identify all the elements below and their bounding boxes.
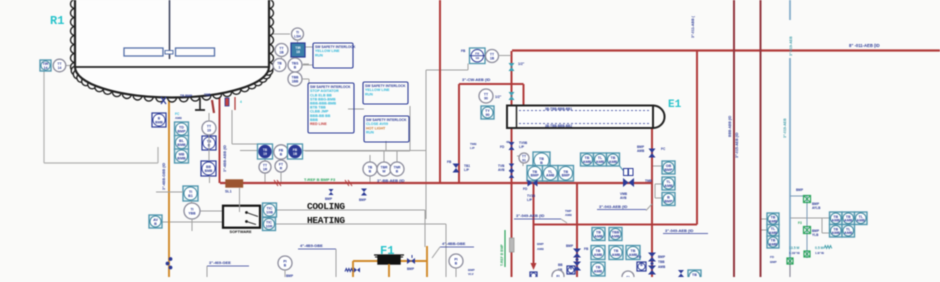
svg-text:3"-011-ABB (: 3"-011-ABB (	[691, 15, 695, 38]
svg-text:AMB: AMB	[769, 242, 778, 246]
svg-text:L/P: L/P	[519, 145, 525, 149]
svg-text:AMB: AMB	[769, 231, 778, 235]
svg-text:RED LINE: RED LINE	[310, 122, 327, 126]
svg-text:BMB: BMB	[205, 169, 213, 173]
svg-text:3"-015-AEB (ID: 3"-015-AEB (ID	[735, 132, 739, 158]
svg-text:10R: 10R	[266, 224, 273, 228]
svg-text:B: B	[540, 161, 543, 165]
svg-text:FC: FC	[661, 147, 666, 151]
svg-text:3"-469-GEE: 3"-469-GEE	[209, 260, 231, 265]
svg-text:1.B"/B: 1.B"/B	[815, 251, 825, 255]
svg-text:FB: FB	[447, 160, 452, 164]
svg-text:AMB: AMB	[594, 253, 603, 257]
svg-text:B1: B1	[188, 194, 193, 198]
svg-text:TBB: TBB	[204, 93, 211, 97]
svg-text:BMP: BMP	[562, 174, 571, 178]
svg-text:L/P: L/P	[464, 168, 470, 172]
svg-text:SW SAFETY INTERLOCK: SW SAFETY INTERLOCK	[366, 118, 407, 122]
svg-text:YBB: YBB	[188, 211, 196, 215]
svg-text:BMP: BMP	[664, 199, 673, 203]
svg-text:3"-4BB-ABB (ID: 3"-4BB-ABB (ID	[223, 145, 227, 172]
svg-text:91: 91	[522, 158, 526, 162]
svg-text:TB BMP: TB BMP	[180, 94, 193, 98]
svg-text:4: 4	[240, 100, 242, 104]
svg-text:1BB: 1BB	[292, 79, 299, 83]
svg-text:3"-BB-AEB (ID: 3"-BB-AEB (ID	[377, 178, 405, 183]
svg-text:3"-043-AEB (ID: 3"-043-AEB (ID	[599, 204, 627, 209]
svg-text:AMB: AMB	[612, 253, 621, 257]
svg-text:1B: 1B	[490, 56, 495, 60]
svg-text:3B-TBB-BBB-BB1: 3B-TBB-BBB-BB1	[545, 107, 572, 111]
svg-text:1.1B"/B: 1.1B"/B	[789, 251, 801, 255]
svg-text:BMP: BMP	[658, 255, 666, 259]
svg-text:AVB: AVB	[620, 196, 627, 200]
svg-text:L/P: L/P	[527, 198, 533, 202]
svg-text:BMP: BMP	[770, 260, 777, 264]
svg-text:8" -011-AEB (ID: 8" -011-AEB (ID	[849, 43, 880, 48]
svg-text:AMB: AMB	[658, 265, 666, 269]
svg-text:1B: 1B	[293, 152, 298, 156]
svg-text:13.5 M: 13.5 M	[789, 246, 800, 250]
svg-text:BBB-ABB (ID: BBB-ABB (ID	[728, 115, 732, 137]
svg-text:AMB: AMB	[565, 213, 573, 217]
svg-text:RUN: RUN	[315, 53, 323, 57]
svg-text:AVB: AVB	[498, 168, 505, 172]
svg-text:3"-049-AEB (ID: 3"-049-AEB (ID	[665, 228, 693, 233]
svg-text:3"-4BB-GBB (ID: 3"-4BB-GBB (ID	[162, 163, 166, 190]
svg-text:BMP: BMP	[531, 174, 540, 178]
svg-text:T-REF B BMP F3: T-REF B BMP F3	[304, 177, 336, 182]
svg-text:AMB: AMB	[546, 174, 555, 178]
svg-text:1/2": 1/2"	[495, 95, 502, 99]
svg-text:E1: E1	[668, 99, 682, 111]
svg-text:AMB: AMB	[594, 269, 603, 273]
svg-text:AMB: AMB	[594, 234, 603, 238]
svg-text:0.5 M: 0.5 M	[815, 246, 824, 250]
svg-text:18: 18	[296, 50, 300, 54]
svg-text:1B: 1B	[279, 50, 284, 54]
svg-text:AMB: AMB	[611, 234, 620, 238]
svg-text:FB: FB	[461, 49, 466, 53]
svg-text:B: B	[154, 222, 157, 226]
svg-text:VLV: VLV	[468, 272, 474, 276]
svg-text:SW SAFETY INTERLOCK: SW SAFETY INTERLOCK	[310, 85, 351, 89]
svg-text:FD: FD	[523, 187, 528, 191]
svg-text:YLB: YLB	[812, 233, 819, 237]
svg-text:BB: BB	[558, 263, 563, 267]
svg-text:RUN: RUN	[365, 92, 373, 96]
svg-text:BMP: BMP	[664, 168, 673, 172]
svg-text:BMB: BMB	[155, 120, 163, 124]
svg-text:BMB: BMB	[177, 143, 186, 147]
svg-text:AYLB: AYLB	[812, 206, 821, 210]
svg-text:SL1: SL1	[225, 190, 232, 194]
svg-text:AMB: AMB	[583, 160, 592, 164]
svg-text:19: 19	[263, 152, 267, 156]
svg-text:F3: F3	[798, 221, 802, 225]
svg-text:AMB: AMB	[844, 219, 853, 223]
svg-text:3"-049-AEB (ID: 3"-049-AEB (ID	[516, 213, 544, 218]
svg-text:TMB: TMB	[645, 179, 653, 183]
svg-text:SOFTWARE: SOFTWARE	[230, 229, 252, 234]
svg-text:AMB: AMB	[637, 149, 645, 153]
svg-text:AMB: AMB	[596, 160, 605, 164]
svg-text:1R: 1R	[263, 167, 268, 171]
svg-text:90: 90	[484, 96, 488, 100]
svg-text:FD: FD	[500, 145, 505, 149]
svg-text:AMB: AMB	[664, 184, 673, 188]
svg-text:T-REF B BMP: T-REF B BMP	[500, 244, 504, 266]
svg-text:AMB: AMB	[857, 219, 866, 223]
svg-text:SW SAFETY INTERLOCK: SW SAFETY INTERLOCK	[365, 84, 406, 88]
svg-text:19: 19	[207, 128, 211, 132]
svg-text:COOLING: COOLING	[307, 201, 345, 212]
svg-text:BMP: BMP	[566, 244, 574, 248]
svg-text:AMB: AMB	[832, 219, 841, 223]
svg-text:TBB: TBB	[658, 260, 665, 264]
svg-text:SW SAFETY INTERLOCK: SW SAFETY INTERLOCK	[315, 45, 356, 49]
svg-text:1/2": 1/2"	[518, 62, 525, 66]
svg-text:HEATING: HEATING	[307, 215, 345, 226]
svg-text:3"-CW-AEB (ID: 3"-CW-AEB (ID	[462, 77, 490, 82]
svg-text:10B: 10B	[266, 210, 273, 214]
svg-text:FB: FB	[584, 247, 589, 251]
svg-text:AMB: AMB	[844, 231, 853, 235]
svg-text:BMP: BMP	[407, 267, 415, 271]
svg-text:AMB: AMB	[175, 116, 183, 120]
svg-text:LSH: LSH	[294, 34, 301, 38]
svg-text:90: 90	[485, 113, 489, 117]
svg-text:4"-4BB-GBE: 4"-4BB-GBE	[442, 241, 466, 246]
svg-text:RUN: RUN	[366, 130, 374, 134]
svg-text:14: 14	[58, 66, 62, 70]
svg-text:FD: FD	[637, 255, 642, 259]
svg-text:3B-TBB-BBB-BB2: 3B-TBB-BBB-BB2	[545, 124, 572, 128]
svg-text:AMB: AMB	[769, 219, 778, 223]
svg-text:4"-4B9-GBE: 4"-4B9-GBE	[300, 243, 323, 248]
svg-text:BMP: BMP	[796, 188, 804, 192]
svg-text:AMB: AMB	[537, 247, 545, 251]
svg-text:AMB: AMB	[609, 160, 618, 164]
svg-text:AMB: AMB	[832, 231, 841, 235]
svg-text:BMP: BMP	[177, 129, 186, 133]
svg-text:1: 1	[279, 65, 281, 69]
svg-text:BMP: BMP	[359, 198, 367, 202]
svg-text:BMP: BMP	[537, 242, 544, 246]
svg-text:L/P: L/P	[470, 146, 475, 150]
svg-text:R1: R1	[50, 14, 64, 28]
svg-text:BMB: BMB	[177, 156, 186, 160]
svg-text:3"-019-AEB: 3"-019-AEB	[789, 36, 793, 56]
svg-text:3"-019-AEB: 3"-019-AEB	[783, 118, 787, 138]
